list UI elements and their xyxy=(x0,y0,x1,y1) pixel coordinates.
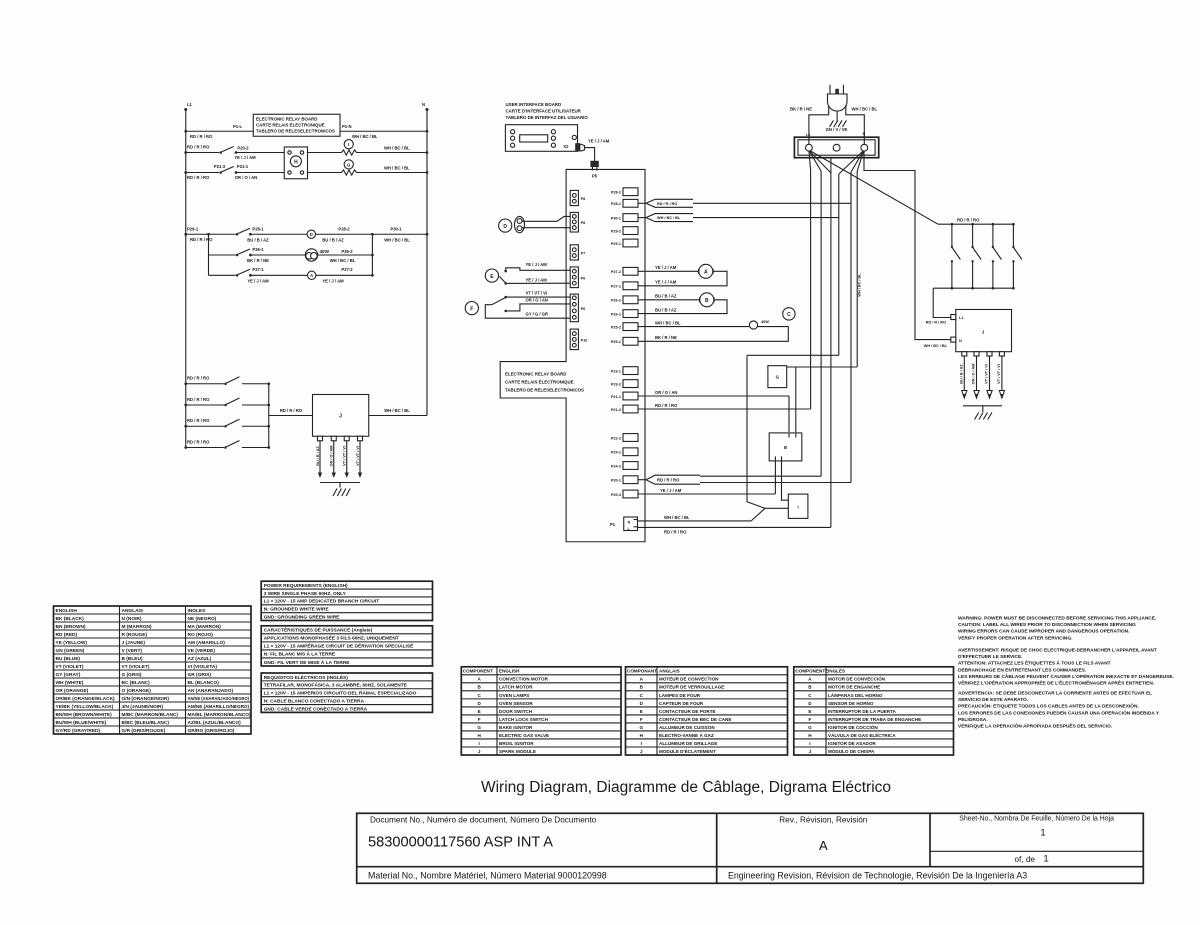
svg-text:RD / R / RO: RD / R / RO xyxy=(190,134,213,139)
svg-text:L1 = 120V - 15 AMPERIOS CIRCUI: L1 = 120V - 15 AMPERIOS CIRCUITO DEL RAM… xyxy=(264,691,417,697)
svg-text:AVERTISSEMENT: RISQUE DE CHOC: AVERTISSEMENT: RISQUE DE CHOC ELECTRIQUE… xyxy=(958,648,1157,654)
svg-text:AM/NE (AMARILLO/NEGRO): AM/NE (AMARILLO/NEGRO) xyxy=(188,704,250,710)
svg-text:VT (VIOLET): VT (VIOLET) xyxy=(122,664,150,670)
pin 2 under J with wire OR / O / AM xyxy=(330,436,337,478)
svg-text:Material No., Nombre Matériel,: Material No., Nombre Matériel, Número Ma… xyxy=(368,871,607,881)
svg-text:YE/BK (YELLOW/BLACK): YE/BK (YELLOW/BLACK) xyxy=(56,704,114,710)
svg-text:MA (MARRON): MA (MARRON) xyxy=(188,624,222,630)
svg-text:WH / BC / BL: WH / BC / BL xyxy=(384,146,410,151)
svg-text:BK / R / NE: BK / R / NE xyxy=(790,106,812,111)
wire P1-L RD/RO to harness xyxy=(638,158,831,535)
wire bottom bus to J L1 xyxy=(926,288,1014,324)
svg-text:WARNING: POWER MUST BE DISCONN: WARNING: POWER MUST BE DISCONNECTED BEFO… xyxy=(958,616,1156,622)
svg-text:GY (GRAY): GY (GRAY) xyxy=(56,672,81,678)
svg-text:OR / O / AM: OR / O / AM xyxy=(972,364,976,385)
svg-text:M (MARRON): M (MARRON) xyxy=(122,624,153,630)
svg-text:SENSOR DE HORNO: SENSOR DE HORNO xyxy=(828,701,874,706)
svg-text:P28-1: P28-1 xyxy=(611,202,621,206)
svg-text:P29-1: P29-1 xyxy=(187,226,199,231)
svg-text:ELECTRO-VANNE À GAZ: ELECTRO-VANNE À GAZ xyxy=(659,732,714,738)
connector P20-3 xyxy=(611,490,638,498)
wire branch vertical x=208 xyxy=(207,233,210,275)
svg-text:J (JAUNE): J (JAUNE) xyxy=(122,640,146,646)
svg-text:OR (ORANGE): OR (ORANGE) xyxy=(56,688,89,694)
svg-text:WH / BC / BL: WH / BC / BL xyxy=(330,258,356,263)
connector P28-2 xyxy=(611,188,638,196)
svg-text:OVEN LAMPS: OVEN LAMPS xyxy=(499,693,529,698)
svg-text:COMPONENT: COMPONENT xyxy=(463,669,493,674)
oven lamp 40W (center) xyxy=(638,320,789,342)
svg-text:INGLES: INGLES xyxy=(188,608,207,614)
svg-text:CONTACTEUR DE PORTE: CONTACTEUR DE PORTE xyxy=(659,709,716,714)
svg-text:OR / O / AN: OR / O / AN xyxy=(235,175,257,180)
svg-text:BK (BLACK): BK (BLACK) xyxy=(56,616,85,622)
svg-text:RD / R / RO: RD / R / RO xyxy=(187,376,210,381)
svg-text:P26-2: P26-2 xyxy=(611,299,621,303)
svg-text:BU / B / AZ: BU / B / AZ xyxy=(316,446,320,466)
connector P6 (left side) xyxy=(570,294,585,322)
wire row P21 (y=172.5) xyxy=(184,171,428,174)
svg-text:GR (GRIS): GR (GRIS) xyxy=(188,672,212,678)
svg-text:IGNITOR DE COCCIÓN: IGNITOR DE COCCIÓN xyxy=(828,723,878,730)
connector P27-2 xyxy=(611,267,638,275)
svg-text:N: N xyxy=(628,520,631,524)
component table 1 (COMPONENT/ENGLISH) xyxy=(461,667,621,755)
svg-text:P20-2: P20-2 xyxy=(237,146,249,151)
svg-text:Document No., Numéro de docume: Document No., Numéro de document, Número… xyxy=(370,815,597,824)
svg-text:VI (VIOLETA): VI (VIOLETA) xyxy=(188,664,218,670)
svg-text:ELECTRIC GAS VALVE: ELECTRIC GAS VALVE xyxy=(499,733,549,738)
svg-text:LATCH LOCK SWITCH: LATCH LOCK SWITCH xyxy=(499,717,549,722)
svg-text:L1 = 120V - 15 AMP DEDICATED B: L1 = 120V - 15 AMP DEDICATED BRANCH CIRC… xyxy=(264,599,380,605)
svg-text:B (BLEU): B (BLEU) xyxy=(122,656,143,662)
svg-text:P27-2: P27-2 xyxy=(611,270,621,274)
svg-text:P24-2: P24-2 xyxy=(611,464,621,468)
wire D to P8 pin3 xyxy=(522,227,570,229)
wire P1 row L1-N xyxy=(184,130,428,133)
electronic relay board label box xyxy=(253,114,340,136)
svg-text:ENGLISH: ENGLISH xyxy=(56,608,78,614)
wire harness vertical WH/BC/BL (x=857.2) xyxy=(857,171,861,367)
junction box J (right) xyxy=(951,310,1012,352)
wire J to N rail xyxy=(369,408,427,416)
svg-text:GND: CABLE VERDE CONECTADO A T: GND: CABLE VERDE CONECTADO A TIERRA xyxy=(264,706,368,712)
svg-text:E: E xyxy=(640,709,643,714)
svg-text:P27-2: P27-2 xyxy=(341,267,353,272)
svg-text:RD / R / RO: RD / R / RO xyxy=(655,403,678,408)
svg-text:RD / R / RO: RD / R / RO xyxy=(657,202,677,206)
wire harness chevron to I xyxy=(747,355,839,508)
user interface board xyxy=(505,102,588,152)
svg-text:P21-1: P21-1 xyxy=(237,164,249,169)
svg-text:INTERRUPTOR DE TRABA DE ENGANC: INTERRUPTOR DE TRABA DE ENGANCHE xyxy=(828,717,921,722)
svg-text:WH / BC / BL: WH / BC / BL xyxy=(657,216,681,220)
svg-text:VERIFY PROPER OPERATION AFTER: VERIFY PROPER OPERATION AFTER SERVICING. xyxy=(958,635,1072,641)
svg-text:DOOR SWITCH: DOOR SWITCH xyxy=(499,709,533,714)
svg-text:BU / B / AZ: BU / B / AZ xyxy=(655,308,677,313)
svg-text:CONVECTION MOTOR: CONVECTION MOTOR xyxy=(499,677,549,682)
resistor element row2 xyxy=(342,150,357,155)
svg-text:RD / R / RO: RD / R / RO xyxy=(926,320,946,324)
svg-text:P1-L: P1-L xyxy=(233,124,243,129)
connector P23-2 xyxy=(611,380,638,388)
svg-text:P21-1: P21-1 xyxy=(611,395,621,399)
svg-text:RO (ROJO): RO (ROJO) xyxy=(188,632,214,638)
svg-text:CARTE D'INTERFACE UTILISATEUR: CARTE D'INTERFACE UTILISATEUR xyxy=(506,108,582,113)
switch right 1 xyxy=(951,223,961,290)
wire plug line to L1 xyxy=(809,106,829,145)
svg-text:BN/WH (BROWN/WHITE): BN/WH (BROWN/WHITE) xyxy=(56,712,113,718)
switch lower-left row 3 xyxy=(184,418,270,428)
svg-text:VT / VT / VI: VT / VT / VI xyxy=(526,291,548,296)
wire P28-1 RD/R/RO to harness xyxy=(638,199,852,207)
svg-text:AM (AMARILLO): AM (AMARILLO) xyxy=(188,640,226,646)
svg-text:YE (YELLOW): YE (YELLOW) xyxy=(56,640,88,646)
wire E to P6 pin1 YE/J/AM xyxy=(506,262,571,271)
svg-text:P23-2: P23-2 xyxy=(611,382,621,386)
svg-text:P1: P1 xyxy=(610,522,616,527)
svg-text:WH / BC / BL: WH / BC / BL xyxy=(852,106,878,111)
svg-text:E: E xyxy=(478,709,481,714)
svg-text:I: I xyxy=(798,505,799,510)
svg-text:N: GROUNDED WHITE WIRE: N: GROUNDED WHITE WIRE xyxy=(264,607,330,613)
wire P1-N WH/BC/BL to broil ignitor I xyxy=(638,508,789,521)
svg-text:GY/RD (GRAY/RED): GY/RD (GRAY/RED) xyxy=(56,728,101,734)
switch lower-left row 1 xyxy=(184,376,270,386)
svg-text:YE / J / AM: YE / J / AM xyxy=(526,277,548,282)
svg-text:YE / J / AM: YE / J / AM xyxy=(588,139,610,144)
junction box J (spark module) xyxy=(313,395,369,437)
svg-text:RD (RED): RD (RED) xyxy=(56,632,78,638)
svg-text:ELECTRONIC RELAY BOARD: ELECTRONIC RELAY BOARD xyxy=(256,117,317,122)
node L1 xyxy=(184,102,192,111)
svg-text:N: CABLE BLANCO CONECTADO A TI: N: CABLE BLANCO CONECTADO A TIERRA xyxy=(264,698,365,704)
svg-text:BU / B / AZ: BU / B / AZ xyxy=(247,237,269,242)
connector P26-2 xyxy=(611,296,638,304)
svg-text:P1-N: P1-N xyxy=(342,124,352,129)
svg-text:VT / VT / VI: VT / VT / VI xyxy=(997,364,1001,384)
switch P21-1 xyxy=(219,167,237,174)
wire N terminal to right junction box J xyxy=(864,151,951,348)
connector P8 (left side) xyxy=(570,212,585,232)
component table 3 (COMPONENTE/INGLES) xyxy=(794,667,954,755)
svg-text:L1: L1 xyxy=(959,316,963,320)
svg-text:BU / B / AZ: BU / B / AZ xyxy=(960,364,964,384)
svg-text:N: N xyxy=(863,132,866,136)
svg-text:OR / O / AN: OR / O / AN xyxy=(526,298,548,303)
svg-text:I: I xyxy=(479,741,480,746)
svg-text:TETRAFILAR, MONOFÁSICA, 3 ALAM: TETRAFILAR, MONOFÁSICA, 3 ALAMBRE, 60HZ,… xyxy=(264,682,408,689)
svg-text:YE / J / AM: YE / J / AM xyxy=(660,488,682,493)
svg-text:CARTE RELAIS ÉLECTRONIQUE: CARTE RELAIS ÉLECTRONIQUE xyxy=(505,380,574,385)
svg-text:OR / O / AN: OR / O / AN xyxy=(655,390,677,395)
svg-text:LATCH MOTOR: LATCH MOTOR xyxy=(499,685,533,690)
svg-text:BL (BLANCO): BL (BLANCO) xyxy=(188,680,220,686)
connector P10 (left side) xyxy=(570,329,587,350)
connector P29-1 xyxy=(611,239,638,247)
svg-text:MOTOR DE ENGANCHE: MOTOR DE ENGANCHE xyxy=(828,685,880,690)
svg-text:YE / J / AM: YE / J / AM xyxy=(655,265,677,270)
wire row C (y=275.3) xyxy=(209,274,373,276)
connector P20-1 xyxy=(611,476,638,484)
connector P25-2 xyxy=(611,323,638,331)
svg-text:RD / R / RO: RD / R / RO xyxy=(280,408,303,413)
svg-text:RD / R / RO: RD / R / RO xyxy=(657,477,680,482)
switch lower-left row 2 xyxy=(184,397,270,407)
svg-text:BU (BLUE): BU (BLUE) xyxy=(56,656,81,662)
svg-text:CAUTION: LABEL ALL WIRES PRIOR: CAUTION: LABEL ALL WIRES PRIOR TO DISCON… xyxy=(958,622,1136,628)
svg-text:AN (ANARANJADO): AN (ANARANJADO) xyxy=(188,688,234,694)
connector X2 xyxy=(563,143,584,151)
svg-text:N (NOIR): N (NOIR) xyxy=(122,616,142,622)
svg-text:E: E xyxy=(808,709,811,714)
svg-text:GND: FIL VERT DE MISE À LA TER: GND: FIL VERT DE MISE À LA TERRE xyxy=(264,659,351,666)
svg-text:P6: P6 xyxy=(581,307,586,311)
wire fan from terminal L1 xyxy=(809,152,831,174)
wire P30-1 WH/BC/BL to harness xyxy=(638,214,839,222)
svg-text:P28-1: P28-1 xyxy=(252,227,264,232)
wire F bracket + pin4 GY/G/GR xyxy=(485,305,570,319)
pin 4 under J with wire VT / VT / VI xyxy=(356,436,363,478)
wire junction vertical x=372.4 xyxy=(371,233,374,277)
wire B pin to broil ignitor I xyxy=(782,461,789,500)
svg-text:RD / R / RO: RD / R / RO xyxy=(187,397,210,402)
svg-text:AZ (AZUL): AZ (AZUL) xyxy=(188,656,212,662)
svg-text:COMPONENTE: COMPONENTE xyxy=(795,669,828,674)
svg-text:RD / R / RO: RD / R / RO xyxy=(187,175,210,180)
svg-text:V (VERT): V (VERT) xyxy=(122,648,143,654)
svg-text:L1: L1 xyxy=(187,102,193,107)
svg-text:J: J xyxy=(339,414,342,420)
svg-text:MÓDULO DE CHISPA: MÓDULO DE CHISPA xyxy=(828,747,875,754)
svg-text:ANGLAIS: ANGLAIS xyxy=(122,608,144,614)
wire N rail xyxy=(426,109,428,416)
svg-text:USER INTERFACE BOARD: USER INTERFACE BOARD xyxy=(506,102,562,107)
svg-text:F: F xyxy=(640,717,643,722)
svg-text:SPARK MODULE: SPARK MODULE xyxy=(499,749,536,754)
connector P30-1 xyxy=(611,214,638,222)
svg-text:P28-2: P28-2 xyxy=(338,227,350,232)
svg-text:J/N (JAUNE/NOIR): J/N (JAUNE/NOIR) xyxy=(122,704,164,710)
svg-text:of, de: of, de xyxy=(1015,855,1036,864)
svg-text:1: 1 xyxy=(1040,828,1045,839)
pin 1 under right J with wire BU / B / AZ xyxy=(960,352,967,399)
svg-text:G: G xyxy=(808,725,812,730)
switch P20-2 xyxy=(219,147,237,154)
svg-text:RD / R / RO: RD / R / RO xyxy=(187,144,210,149)
svg-text:Sheet-No., Nombra De Feuille,: Sheet-No., Nombra De Feuille, Número De … xyxy=(959,816,1114,823)
svg-text:P20-3: P20-3 xyxy=(611,493,621,497)
svg-text:MOTEUR DE CONVECTION: MOTEUR DE CONVECTION xyxy=(659,677,719,682)
connector P7 (left side) xyxy=(570,245,585,260)
svg-text:ALLUMEUR DE GRILLAGE: ALLUMEUR DE GRILLAGE xyxy=(659,741,717,746)
power requirements table (french) xyxy=(261,626,432,666)
svg-text:P22-2: P22-2 xyxy=(611,436,621,440)
svg-text:P6: P6 xyxy=(581,276,586,280)
svg-text:A: A xyxy=(310,273,313,278)
svg-text:VT / VT / VI: VT / VT / VI xyxy=(343,446,347,466)
wire D to P8 pin1 xyxy=(522,216,570,221)
svg-text:G (GRIS): G (GRIS) xyxy=(122,672,142,678)
ground (left J) xyxy=(320,483,360,497)
oven lamp 40W xyxy=(305,249,329,261)
svg-text:POWER REQUIREMENTS (ENGLISH): POWER REQUIREMENTS (ENGLISH) xyxy=(264,583,348,589)
svg-text:GN / V / VE: GN / V / VE xyxy=(826,127,848,132)
connector P28-1 xyxy=(611,199,638,207)
switch right 4 xyxy=(1012,223,1022,290)
svg-text:WH / BC / BL: WH / BC / BL xyxy=(384,237,410,242)
svg-text:H: H xyxy=(294,159,298,165)
power requirements table (spanish) xyxy=(261,673,432,713)
node N xyxy=(422,102,429,111)
svg-text:YE / J / AM: YE / J / AM xyxy=(247,278,269,283)
svg-text:1: 1 xyxy=(1043,853,1048,864)
svg-text:WH / BC / BL: WH / BC / BL xyxy=(655,321,681,326)
svg-text:GND: GROUNDING GREEN WIRE: GND: GROUNDING GREEN WIRE xyxy=(264,614,340,620)
connector P25-1 xyxy=(611,337,638,345)
bus RD/R/RO (right switches) xyxy=(938,217,1013,224)
svg-text:L1: L1 xyxy=(806,133,810,137)
svg-text:F: F xyxy=(808,717,811,722)
svg-text:CAPTEUR DE FOUR: CAPTEUR DE FOUR xyxy=(659,701,704,706)
svg-text:P30-1: P30-1 xyxy=(611,216,621,220)
svg-text:PELIGROSA.: PELIGROSA. xyxy=(958,717,988,723)
connector P8 (left side) xyxy=(570,190,585,205)
svg-text:P28-2: P28-2 xyxy=(611,191,621,195)
svg-text:G/R (GRIS/ROUGE): G/R (GRIS/ROUGE) xyxy=(122,728,166,734)
svg-text:BC (BLANC): BC (BLANC) xyxy=(122,680,151,686)
wire P20-1 RD/R/RO flag xyxy=(638,475,852,484)
svg-text:VÁLVULA DE GAS ELÉCTRICA: VÁLVULA DE GAS ELÉCTRICA xyxy=(828,731,896,738)
gas valve H xyxy=(284,147,307,179)
svg-text:F: F xyxy=(478,717,481,722)
svg-text:MOTEUR DE VERROUILLAGE: MOTEUR DE VERROUILLAGE xyxy=(659,685,724,690)
svg-text:G: G xyxy=(776,375,779,380)
svg-text:OR / O / AM: OR / O / AM xyxy=(330,446,334,467)
oven sensor D xyxy=(307,230,315,238)
wire fan from terminal N xyxy=(839,152,864,175)
svg-text:WIRING ERRORS CAN CAUSE IMPROP: WIRING ERRORS CAN CAUSE IMPROPER AND DAN… xyxy=(958,629,1129,635)
switch P27-1 xyxy=(236,269,252,276)
svg-text:MOTOR DE CONVECCIÓN: MOTOR DE CONVECCIÓN xyxy=(828,675,886,682)
svg-text:BN (BROWN): BN (BROWN) xyxy=(56,624,87,630)
svg-text:P26-1: P26-1 xyxy=(252,247,264,252)
svg-text:I: I xyxy=(641,741,642,746)
switch right 3 xyxy=(992,223,1002,290)
connector P6 (left side) xyxy=(570,267,585,288)
switch lower-left row 4 xyxy=(184,439,270,449)
terminal block xyxy=(794,132,878,158)
connector P21-1 xyxy=(611,392,638,400)
svg-text:RD / R / RO: RD / R / RO xyxy=(187,418,210,423)
connector P1 xyxy=(610,517,638,531)
node P29-1 xyxy=(184,226,198,235)
wire harness vertical RD (x=821.1) xyxy=(820,171,822,476)
wire harness vertical RD (x=851) xyxy=(850,172,852,483)
svg-text:G: G xyxy=(639,725,643,730)
svg-text:40W: 40W xyxy=(761,320,769,324)
switch right 2 xyxy=(971,223,981,290)
wire harness vertical RD (x=810.6) xyxy=(810,170,812,409)
broil ignitor I xyxy=(344,140,353,149)
svg-text:OR/BK (ORANGE/BLACK): OR/BK (ORANGE/BLACK) xyxy=(56,696,116,702)
wire F to P6b pin1 VT/VT/VI xyxy=(506,291,571,298)
svg-text:P21-2: P21-2 xyxy=(611,408,621,412)
svg-text:LÁMPARAS DEL HORNO: LÁMPARAS DEL HORNO xyxy=(828,692,883,698)
svg-text:P29-2: P29-2 xyxy=(611,229,621,233)
wire switch bus x=268.75 xyxy=(268,384,270,448)
svg-text:A: A xyxy=(819,838,828,853)
svg-text:CARTE RELAIS ÉLECTRONIQUE: CARTE RELAIS ÉLECTRONIQUE xyxy=(256,123,325,128)
latch lock switch F xyxy=(465,296,507,315)
svg-text:P25-2: P25-2 xyxy=(341,249,353,254)
wire row A (y=234.25) xyxy=(186,233,429,236)
warning text block xyxy=(958,616,1174,730)
resistor element row3 xyxy=(342,170,357,175)
pin 1 under J with wire BU / B / AZ xyxy=(316,436,323,478)
svg-text:R (ROUGE): R (ROUGE) xyxy=(122,632,148,638)
svg-text:VT / VT / VI: VT / VT / VI xyxy=(985,364,989,384)
svg-text:VT / VT / VI: VT / VT / VI xyxy=(356,446,360,466)
svg-text:BU/WH (BLUE/WHITE): BU/WH (BLUE/WHITE) xyxy=(56,720,107,726)
wire P20-3 YE/J/AM to latch motor B xyxy=(638,461,776,494)
pin 3 under right J with wire VT / VT / VI xyxy=(985,352,992,399)
svg-text:F: F xyxy=(470,306,473,312)
connector P24-1 xyxy=(611,448,638,456)
svg-text:TABLERO DE RELESELECTRONICOS: TABLERO DE RELESELECTRONICOS xyxy=(256,129,335,134)
svg-text:VE (VERDE): VE (VERDE) xyxy=(188,648,216,654)
svg-text:ADVERTENCIA: SE DEBE DESCONECT: ADVERTENCIA: SE DEBE DESCONECTAR LA CORR… xyxy=(958,691,1152,697)
svg-text:B: B xyxy=(784,445,787,450)
svg-text:M/BC (MARRON/BLANC): M/BC (MARRON/BLANC) xyxy=(122,712,179,718)
svg-text:P27-1: P27-1 xyxy=(252,267,264,272)
wire P21-1 OR/O/AN to latch motor B xyxy=(638,390,790,432)
svg-text:J: J xyxy=(478,749,481,754)
svg-text:D: D xyxy=(503,224,507,230)
svg-text:WH / BC / BL: WH / BC / BL xyxy=(384,166,410,171)
svg-text:X2: X2 xyxy=(563,144,569,149)
svg-text:GR/RO (GRIS/ROJO): GR/RO (GRIS/ROJO) xyxy=(188,728,235,734)
wire bus to junction box J xyxy=(269,408,313,416)
svg-text:N: N xyxy=(422,102,425,107)
svg-text:VT (VIOLET): VT (VIOLET) xyxy=(56,664,84,670)
pin 3 under J with wire VT / VT / VI xyxy=(343,436,350,478)
svg-text:P25-2: P25-2 xyxy=(611,325,621,329)
power plug xyxy=(828,85,848,111)
wire E to P6 pin3 YE/J/AM xyxy=(506,277,571,283)
svg-text:I: I xyxy=(809,741,810,746)
svg-text:CONTACTEUR DE BEC DE CANE: CONTACTEUR DE BEC DE CANE xyxy=(659,717,731,722)
svg-text:40W: 40W xyxy=(320,249,330,254)
svg-text:Engineering Revision, Révision: Engineering Revision, Révision de Techno… xyxy=(728,871,1027,881)
svg-text:GN (GREEN): GN (GREEN) xyxy=(56,648,85,654)
svg-text:TABLERO DE INTERFAZ DEL USUARI: TABLERO DE INTERFAZ DEL USUARIO xyxy=(506,115,589,120)
connector P24-2 xyxy=(611,462,638,470)
svg-text:58300000117560 ASP INT A: 58300000117560 ASP INT A xyxy=(368,835,553,851)
convection motor A xyxy=(308,271,316,279)
svg-text:P25-1: P25-1 xyxy=(611,340,621,344)
wire G to harness WH/BC/BL xyxy=(787,367,858,432)
svg-text:YE / J / AM: YE / J / AM xyxy=(655,280,677,285)
svg-text:OVEN SENSOR: OVEN SENSOR xyxy=(499,701,533,706)
svg-text:P10: P10 xyxy=(581,338,588,342)
svg-text:WH (WHITE): WH (WHITE) xyxy=(56,680,84,686)
svg-text:YE / J / AM: YE / J / AM xyxy=(234,155,256,160)
wire P21-2 RD/R/RO to terminal L1 xyxy=(638,403,811,409)
svg-text:P23-1: P23-1 xyxy=(611,369,621,373)
convection motor A (center) xyxy=(638,264,728,286)
switch P26-1 xyxy=(236,249,252,256)
